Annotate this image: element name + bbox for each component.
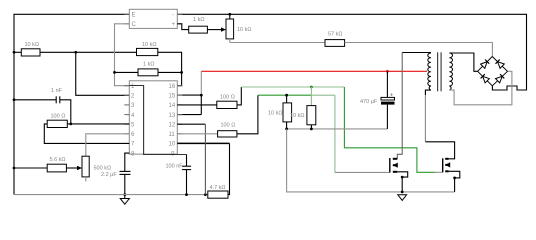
node dot pin15 <box>200 94 203 97</box>
wire pin12 drop <box>177 123 205 125</box>
diode D3 bottom-left <box>481 74 490 83</box>
resistor 10k R10 <box>268 103 292 122</box>
svg-text:E: E <box>132 13 136 19</box>
svg-text:1 kΩ: 1 kΩ <box>143 62 154 68</box>
node dot 10kR rail <box>310 127 313 130</box>
IC U1 box <box>129 81 177 158</box>
svg-text:5.6 kΩ: 5.6 kΩ <box>50 157 66 163</box>
transformer T1 secondary lead bottom to bridge <box>449 71 512 105</box>
transformer core <box>437 52 439 91</box>
resistor 100 R7 <box>47 114 67 128</box>
MOSFET Q2 <box>443 158 451 172</box>
wire pin15 rail gray upper <box>200 71 202 95</box>
node dot pot top <box>228 13 231 16</box>
wire wiper arrow to pot 10k <box>207 27 226 31</box>
wire 10k R2 to pin16 rail <box>158 52 182 85</box>
ground symbol right <box>398 195 407 201</box>
svg-text:12: 12 <box>169 123 176 129</box>
wire wiper arrow to pot 500k <box>66 166 82 170</box>
node dot left rail 1nF row <box>13 98 16 101</box>
wire pin9 to 100nF <box>186 155 188 167</box>
resistor 100 R8 <box>217 95 237 109</box>
wire pin12 vertical <box>204 124 206 194</box>
wire pin11 to 100R9 <box>177 133 217 135</box>
svg-text:11: 11 <box>169 132 176 138</box>
resistor 1k R4 <box>189 17 208 33</box>
wire top rail right <box>177 14 526 90</box>
svg-text:57 kΩ: 57 kΩ <box>328 32 343 38</box>
svg-text:100 Ω: 100 Ω <box>221 122 236 128</box>
svg-text:10 kΩ: 10 kΩ <box>268 111 283 117</box>
wire 100R8 up to green1 <box>237 87 241 105</box>
wire gray drop to bottom right rail <box>287 129 455 192</box>
node dot v75 <box>74 51 77 54</box>
transformer T1 secondary winding <box>449 53 452 90</box>
node dot M1 source <box>401 176 404 179</box>
wire pin2 from v75 <box>76 52 130 95</box>
wire opto plus jog <box>177 24 188 30</box>
wire pin15 rail black lower <box>200 95 202 115</box>
wire pin6 gray to pot500k <box>86 134 130 156</box>
wire pin13 <box>177 114 201 116</box>
wire green2 pale drop <box>334 95 336 172</box>
svg-text:15: 15 <box>169 94 176 100</box>
transformer T1 primary lead top <box>402 52 431 54</box>
potentiometer 10k P1 <box>226 14 252 42</box>
wire 5k6 left <box>14 167 47 169</box>
wire green1 drop to M2 gate <box>344 87 435 172</box>
wire M2 source <box>449 171 460 192</box>
svg-text:10: 10 <box>169 142 176 148</box>
wire pin7 U link <box>44 124 129 143</box>
wire M1 source <box>397 172 407 192</box>
svg-text:16: 16 <box>169 84 176 90</box>
wire pin8 to 2.2uF <box>125 153 130 171</box>
wire green2 pale segment <box>311 94 335 96</box>
resistor 57k R6 <box>325 32 345 47</box>
node dot red 470u <box>386 70 389 73</box>
wire 1nF left <box>14 99 56 101</box>
svg-text:14: 14 <box>169 103 176 109</box>
resistor 10k R2 <box>137 42 158 56</box>
svg-text:100 nF: 100 nF <box>166 163 184 169</box>
node dot green2 10k <box>285 94 288 97</box>
wire M2 gate lead <box>435 171 443 173</box>
transformer T1 secondary lead top to bridge <box>449 53 477 71</box>
wire bottom rail <box>14 194 208 196</box>
IC U1 pin stubs left <box>124 86 129 153</box>
wire 10k row mid <box>40 51 137 53</box>
svg-text:1 nF: 1 nF <box>51 88 63 94</box>
wire green 10kR top lead <box>310 87 312 106</box>
diode D4 bottom-right <box>496 74 505 83</box>
svg-text:10 kΩ: 10 kΩ <box>142 42 157 48</box>
resistor 1k R3 <box>138 62 158 76</box>
resistor 10k R11 <box>290 106 316 125</box>
svg-text:470 µF: 470 µF <box>360 99 378 105</box>
svg-text:2.2 µF: 2.2 µF <box>101 172 117 178</box>
wire 4.7k right to pin10 drop <box>228 143 230 194</box>
wire green1 gate rail <box>241 86 344 88</box>
wire 10k row left <box>14 51 21 53</box>
wire top rail left <box>14 14 129 194</box>
wire pin5 <box>71 123 130 125</box>
node dot M2 source <box>453 177 456 180</box>
svg-text:10 kΩ: 10 kΩ <box>25 42 40 48</box>
optocoupler U2 box <box>124 9 182 28</box>
resistor 4.7k R14 <box>208 185 228 198</box>
svg-text:10 kΩ: 10 kΩ <box>290 113 305 119</box>
capacitor 470uF C4 <box>360 71 395 129</box>
wire opto C to pin1 <box>115 24 130 86</box>
node dot bottom rail 2.2uF <box>123 193 126 196</box>
svg-text:100 Ω: 100 Ω <box>220 95 235 101</box>
potentiometer 500k P2 <box>82 156 111 181</box>
wire 10kR bottom lead <box>310 125 312 129</box>
wire 57k rail to bridge top <box>345 43 493 57</box>
wire 1nF right to pin5 row <box>60 100 71 124</box>
svg-text:-: - <box>172 13 174 19</box>
svg-text:10 kΩ: 10 kΩ <box>237 27 252 33</box>
wire 100R9 up to green2 <box>237 95 258 134</box>
ground symbol left <box>120 199 129 205</box>
wire gray to M1 gate <box>335 171 390 173</box>
wire 2.2uF to ground <box>124 174 126 198</box>
node dot left rail 5k6 row <box>13 167 16 170</box>
svg-text:C: C <box>132 22 137 28</box>
svg-text:1 kΩ: 1 kΩ <box>193 17 204 23</box>
svg-text:100 Ω: 100 Ω <box>51 114 66 120</box>
wire 1k row right <box>158 71 182 73</box>
wire red supply rail <box>201 70 427 72</box>
svg-text:13: 13 <box>169 113 176 119</box>
node dot pin5 row <box>69 123 72 126</box>
svg-text:+: + <box>172 22 176 28</box>
wire 57k rail <box>230 42 325 44</box>
wire M1 drain drop <box>397 53 402 159</box>
wire 10kL bottom lead <box>286 122 288 129</box>
wire pin10 <box>177 142 229 144</box>
IC U1 pin stubs right <box>177 86 182 155</box>
node dot green1 10k <box>310 86 313 89</box>
node dot bottom rail pin12 <box>204 193 207 196</box>
node dot 10kL rail <box>285 127 288 130</box>
svg-text:4.7 kΩ: 4.7 kΩ <box>210 185 226 191</box>
svg-text:+: + <box>390 92 393 98</box>
wire M2 drain <box>425 142 454 159</box>
resistor 100 R9 <box>218 122 237 137</box>
wire green2 gate rail <box>258 94 312 96</box>
node dot bottom rail 100nF <box>185 193 188 196</box>
transformer T1 primary lead bottom <box>425 90 431 95</box>
wire through IC pin1 to pin9 <box>129 86 186 155</box>
wire 10kL top lead <box>286 95 288 103</box>
MOSFET Q1 <box>390 158 398 173</box>
wire 100R7 left U to pin7 <box>67 123 71 125</box>
node dot C rail 1k row <box>113 71 116 74</box>
svg-text:500 kΩ: 500 kΩ <box>94 166 112 172</box>
diode D2 right-top <box>496 60 505 69</box>
node dot left rail 10k row <box>13 51 16 54</box>
transformer T1 primary winding <box>428 53 431 90</box>
wire 100nF to bottom rail <box>186 170 188 195</box>
capacitor 100nF C3 <box>166 163 192 169</box>
wire 1k row left <box>115 71 139 73</box>
resistor 5.6k R12 <box>47 157 66 172</box>
wire pin15 <box>177 94 201 96</box>
wire pin14 to 100R8 <box>177 104 217 106</box>
node dot 1k rail <box>180 71 183 74</box>
node dot ground right rail <box>401 191 404 194</box>
wire 10k bottom rail <box>287 128 388 130</box>
diode D1 left-top <box>481 60 490 69</box>
bridge rectifier D1-D4 <box>478 57 508 86</box>
capacitor 2.2uF C2 <box>101 171 131 178</box>
resistor 10k R1 <box>21 42 40 56</box>
capacitor 1nF C1 <box>51 88 63 103</box>
